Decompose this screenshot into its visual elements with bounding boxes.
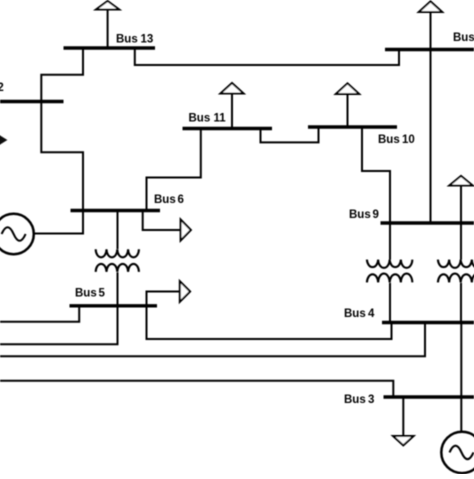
wire bus5 - left line 2 [0,307,118,344]
wire bus13 - bus14 [135,49,399,65]
svg-text:Bus: Bus [344,394,366,406]
bus 14 bar [385,48,474,51]
svg-text:6: 6 [178,194,184,206]
svg-text:5: 5 [99,288,106,300]
load arrow stem at bus 10 [347,94,349,126]
svg-text:3: 3 [368,394,374,406]
wire bus11 - bus6 [147,130,201,210]
svg-text:Bus: Bus [154,194,176,206]
transformer T2 stem bottom (bus4 side) [389,283,391,321]
transformer T3 stem top (bus9 side) [460,225,462,260]
load arrow stem at bus 14 [430,12,432,48]
svg-text:Bus: Bus [344,308,366,320]
load arrowhead at bus 13 [96,1,119,10]
load arrow stem at bus 13 [107,10,109,47]
generator G1 sine [2,227,26,241]
load arrowhead at bus 9 [449,176,472,186]
bus 5 bar [70,304,158,307]
transformer T3 bottom winding [438,274,474,283]
wire bus5 - bus4 [147,307,392,339]
transformer T1 top winding [96,249,139,257]
bus 3 bar [384,395,474,398]
load arrowhead at bus 11 [220,83,243,94]
transformer T2 bottom winding [367,274,412,283]
load arrow line at bus 6 [143,212,181,230]
wire bus4 - bus3 [460,324,462,396]
svg-text:11: 11 [214,113,227,125]
load arrowhead at bus 5 [180,281,190,302]
load arrow stem at bus 3 [402,399,404,437]
bus 13 bar [64,46,156,49]
load arrowhead at bus 6 [181,220,191,241]
svg-text:12: 12 [0,82,4,94]
svg-text:9: 9 [373,209,379,221]
wire bus11 - bus10 [261,128,319,142]
svg-text:13: 13 [141,34,154,46]
generator G2 sine [450,446,474,460]
bus 11 bar [183,127,273,130]
transformer T3 stem bottom (bus4 side) [460,283,462,321]
wire bus5 - left line 1 [0,307,79,322]
wire bus6 - generator G1 [34,212,83,234]
load arrowhead at bus 14 [419,1,442,12]
svg-text:Bus: Bus [453,32,474,44]
svg-text:Bus: Bus [116,34,138,46]
transformer T1 stem bottom (bus5 side) [117,272,119,304]
wire left - bus3 [0,381,393,396]
transformer T2 stem top (bus9 side) [389,225,391,260]
load arrowhead at bus 10 [336,83,359,94]
wire bus13 - bus12 [41,49,83,101]
load arrow stem at bus 9 [460,186,462,222]
bus 4 bar [382,321,474,324]
generator G2 circle [441,432,474,473]
wire left - bus4 [0,324,425,356]
load arrowhead at bus 12 (clipped) [0,134,7,146]
svg-text:Bus: Bus [75,288,97,300]
bus 12 bar [0,100,64,103]
load arrow stem at bus 11 [231,94,233,128]
wire bus3 - generator G2 [460,399,462,432]
transformer T3 top winding [438,260,474,268]
load arrow line at bus 5 [147,292,180,305]
wire bus12 - bus6 [41,102,83,210]
svg-text:4: 4 [368,308,375,320]
svg-text:10: 10 [402,134,415,146]
svg-text:Bus: Bus [378,134,400,146]
svg-text:Bus: Bus [349,209,371,221]
transformer T2 top winding [367,260,412,268]
wire bus10 - bus9 [362,128,390,222]
transformer T1 bottom winding [96,264,139,272]
bus 9 bar [381,221,474,224]
transformer T1 stem top (bus6 side) [117,212,119,249]
svg-text:Bus: Bus [189,113,211,125]
bus 6 bar [71,209,161,212]
generator G1 circle [0,214,34,254]
bus 10 bar [308,125,397,128]
load arrowhead at bus 3 [393,436,414,445]
wire bus14 - bus9 [430,51,432,223]
